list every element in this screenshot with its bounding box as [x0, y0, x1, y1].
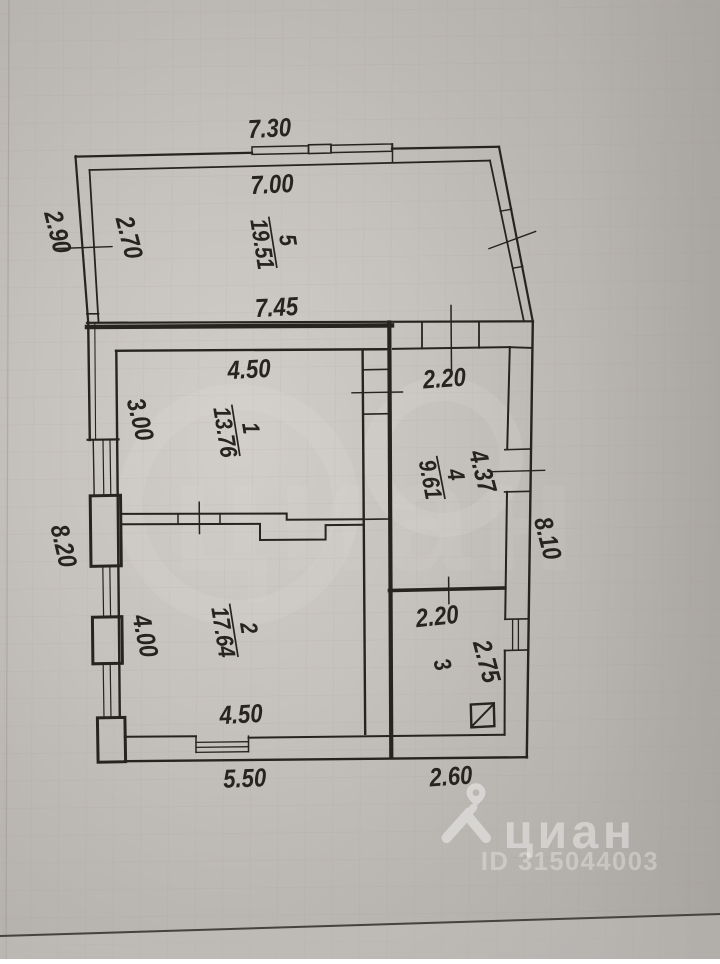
left wall line seg a2: [102, 440, 105, 496]
svg-text:5.50: 5.50: [223, 764, 268, 795]
room4 top wall divider a: [421, 323, 423, 348]
cian watermark pin chevron: [447, 815, 487, 838]
left wall line seg b2: [102, 566, 105, 617]
right wall sill a: [505, 448, 531, 451]
outer left wall upper segment: [88, 323, 90, 441]
svg-text:2.20: 2.20: [421, 363, 467, 395]
dimension tick room1-2 divider: [198, 502, 200, 533]
right outer wall: [527, 322, 533, 758]
diagonal dimension tick: [489, 231, 536, 248]
bottom inner wall right span: [249, 735, 505, 738]
bottom outer wall: [125, 757, 527, 761]
dimension tick 4.37: [492, 470, 545, 471]
right wall sill b: [505, 490, 531, 493]
right wall sill d: [505, 649, 528, 652]
svg-text:4.50: 4.50: [218, 699, 264, 730]
room 2 area label 2/17.64: [206, 599, 267, 661]
svg-text:7.30: 7.30: [247, 113, 292, 144]
left wall dimension tick 2.90/2.70: [55, 247, 112, 249]
paper sheet bottom edge line: [0, 914, 720, 936]
cian watermark pin stub: [467, 808, 474, 816]
room5 top wall window A: [252, 146, 309, 155]
diagonal wall rung 2: [513, 266, 523, 268]
room1-2 divider upper stepped line: [121, 514, 363, 520]
svg-text:7.45: 7.45: [254, 292, 299, 323]
dimension tick right wall of room1: [352, 391, 403, 394]
dimension tick 2.20 lower: [448, 577, 450, 603]
room1-2 divider lower stepped line: [121, 524, 363, 540]
room4-3 divider wall: [390, 588, 505, 591]
room4 right inner wall upper: [507, 347, 510, 449]
room2 bottom inner wall left: [125, 735, 196, 738]
room4 top wall lower line: [393, 347, 510, 349]
svg-text:2.60: 2.60: [428, 761, 474, 793]
right window vertical b: [517, 619, 519, 650]
right wall connector b: [363, 413, 389, 416]
divider upper line through cavity: [365, 518, 389, 520]
bottom window jamb right: [248, 736, 250, 752]
left wall window 2: [92, 617, 122, 664]
bottom-left corner block: [97, 717, 125, 762]
svg-text:ID 315044003: ID 315044003: [481, 848, 659, 876]
svg-text:2.20: 2.20: [413, 600, 460, 634]
room5 top outer wall right segment: [392, 147, 499, 149]
svg-text:7.00: 7.00: [250, 169, 295, 200]
room5 top wall mullion block: [309, 144, 332, 153]
room5 top outer wall left segment: [76, 153, 253, 157]
stove symbol square with diagonal: [471, 703, 495, 727]
left wall line seg c1: [102, 664, 105, 718]
stronger left margin grid line: [6, 0, 9, 959]
left wall line seg a3: [109, 440, 112, 496]
room1+room2 right wall: [363, 351, 366, 734]
room5 top inner wall line: [90, 161, 491, 170]
giant faint watermark circle 2: [130, 397, 346, 613]
bottom wall window lines: [196, 742, 249, 753]
door jamb a: [177, 514, 179, 525]
outer left wall inner thin line: [94, 323, 97, 440]
right window vertical a: [512, 620, 514, 651]
room1+room2 left wall: [116, 351, 120, 718]
room4 top wall divider b: [478, 323, 480, 348]
room 4 area label 4/9.61: [413, 450, 473, 503]
giant faint watermark circle: [375, 389, 511, 525]
left wall line seg a1: [93, 440, 94, 496]
central thick wall rooms1-2|4-3: [389, 323, 391, 758]
room5 diagonal inner wall: [490, 161, 524, 321]
left wall step sill: [88, 438, 119, 441]
main top outer wall line: [87, 321, 533, 323]
right section top band closing sill: [510, 346, 532, 349]
right wall sill c: [505, 618, 528, 621]
room 1 area label 1/13.76: [208, 400, 268, 460]
room5 top wall window B: [331, 144, 392, 153]
cian watermark pin teardrop head: [467, 783, 486, 806]
room4 right inner wall mid: [505, 492, 507, 619]
room3 right inner wall lower: [504, 651, 506, 735]
svg-text:4.50: 4.50: [226, 354, 272, 385]
room5 left outer wall: [76, 157, 89, 323]
room5 left wall connector tick: [87, 313, 99, 315]
window B right jamb: [392, 144, 394, 162]
left wall line seg c2: [109, 664, 112, 718]
bottom window jamb left: [195, 736, 197, 752]
room5 diagonal outer wall: [499, 147, 533, 322]
room1 top wall: [116, 349, 389, 351]
room5 left inner wall line: [90, 170, 99, 314]
dimension tick 2.20 upper: [450, 306, 453, 370]
lighter paper below edge: [0, 916, 720, 960]
main top wall thick inner band: [87, 325, 392, 327]
diagonal wall rung 1: [500, 209, 511, 211]
stove diagonal: [471, 704, 493, 727]
room 5 area label 5/19.51: [245, 212, 305, 272]
left wall window 1: [90, 495, 121, 566]
room5 left inner wall stub: [97, 314, 100, 323]
door jamb b: [219, 514, 221, 525]
left wall line seg b3: [109, 566, 112, 617]
right wall connector a: [363, 368, 389, 371]
